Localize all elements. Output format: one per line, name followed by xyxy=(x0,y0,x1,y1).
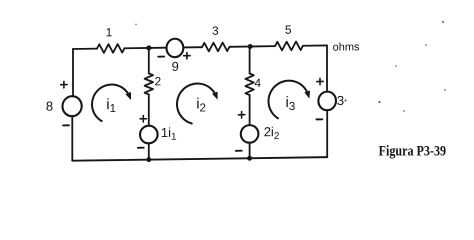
svg-text:Figura P3-39: Figura P3-39 xyxy=(379,143,447,159)
source V8 xyxy=(63,96,82,116)
V9 plus xyxy=(184,52,190,58)
svg-text:2: 2 xyxy=(155,74,162,88)
wire branch2 lower xyxy=(249,143,251,159)
svg-text:3: 3 xyxy=(337,93,344,108)
node A xyxy=(146,45,151,50)
svg-text:9: 9 xyxy=(172,59,179,74)
svg-text:3: 3 xyxy=(212,24,219,38)
node bottom1 xyxy=(146,157,151,162)
resistor R4 (4 ohm) xyxy=(245,73,253,95)
wire V9 to R3 xyxy=(183,46,202,48)
node bottom2 xyxy=(247,156,252,161)
wire branch2 upper xyxy=(249,47,251,74)
2i2 plus xyxy=(238,111,244,117)
svg-text:i1: i1 xyxy=(106,96,116,115)
V8 minus xyxy=(63,124,69,126)
mesh current i3 arrow xyxy=(269,80,311,118)
wire right vertical upper xyxy=(326,45,328,91)
source V9 xyxy=(167,39,184,58)
resistor R3 (3 ohm) xyxy=(202,42,230,51)
resistor R5 (5 ohm) xyxy=(275,41,303,50)
mesh current i2 arrow xyxy=(177,83,218,123)
wire branch2 middle xyxy=(249,95,251,125)
specks xyxy=(135,21,446,112)
wire branch1 lower xyxy=(148,143,150,159)
svg-text:8: 8 xyxy=(46,99,53,114)
2i2 minus xyxy=(236,150,242,152)
1i1 minus xyxy=(138,147,144,149)
wire R1 to node A xyxy=(125,47,167,50)
svg-text:i2: i2 xyxy=(196,95,206,114)
1i1 plus xyxy=(140,116,146,122)
wire R3 to R5 xyxy=(230,45,276,48)
wire bottom xyxy=(72,157,327,161)
svg-text:ohms: ohms xyxy=(333,41,360,53)
V8 plus xyxy=(61,81,67,87)
svg-text:5: 5 xyxy=(285,23,292,37)
wire left vertical upper xyxy=(72,49,74,96)
V3 minus xyxy=(317,118,323,120)
svg-text:2i2: 2i2 xyxy=(264,124,280,142)
source 2i2 xyxy=(241,125,259,143)
wire top-left xyxy=(73,48,97,50)
resistor R1 (1 ohm) xyxy=(97,44,125,53)
svg-text:1: 1 xyxy=(106,25,113,39)
source V3 xyxy=(318,92,336,111)
wire right vertical lower xyxy=(326,110,328,157)
svg-text:4: 4 xyxy=(254,76,261,90)
svg-text:i3: i3 xyxy=(286,94,296,113)
mesh current i1 arrow xyxy=(92,84,131,121)
V3 plus xyxy=(317,78,323,84)
source 1i1 xyxy=(140,126,158,144)
node B xyxy=(248,44,253,49)
wire left vertical lower xyxy=(71,116,73,161)
wire branch1 upper xyxy=(148,48,150,74)
wire branch1 middle xyxy=(148,94,150,125)
resistor R2 (2 ohm) xyxy=(145,73,153,94)
svg-text:1i1: 1i1 xyxy=(161,125,177,143)
wire R5 to top-right corner xyxy=(303,44,327,46)
V9 minus xyxy=(158,56,164,58)
